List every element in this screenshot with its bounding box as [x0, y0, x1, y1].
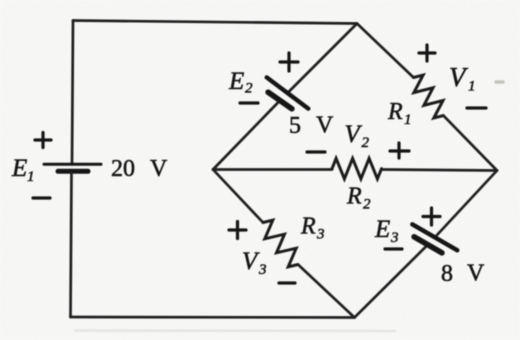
plus R3: [229, 222, 246, 239]
resistor R2: [332, 158, 382, 179]
svg-text:1: 1: [404, 112, 412, 128]
wire R2 to R: [382, 170, 498, 171]
wire left upper: [72, 21, 73, 164]
minus R2: [307, 150, 325, 153]
svg-text:E: E: [11, 155, 27, 182]
svg-text:R: R: [346, 184, 362, 210]
svg-text:1: 1: [468, 79, 476, 95]
svg-text:8: 8: [441, 261, 453, 287]
svg-text:3: 3: [390, 230, 399, 246]
svg-text:R: R: [300, 214, 316, 240]
svg-text:3: 3: [316, 227, 325, 243]
wire R3 to B: [298, 265, 355, 318]
wire left lower: [71, 172, 72, 317]
wire R1 to R: [443, 116, 497, 171]
wire top: [73, 21, 357, 24]
wire B to E3: [355, 247, 427, 318]
svg-text:5: 5: [289, 113, 301, 139]
wire T to E2: [289, 24, 357, 92]
resistor R1: [414, 75, 444, 118]
wire L to R3: [213, 170, 263, 223]
svg-text:2: 2: [363, 197, 371, 213]
svg-text:E: E: [228, 68, 244, 95]
svg-text:R: R: [387, 99, 403, 125]
svg-text:V: V: [150, 156, 168, 182]
battery E3: [412, 224, 457, 253]
scan streak bottom: [75, 329, 395, 332]
plus E2: [280, 53, 298, 71]
minus R1: [467, 106, 486, 109]
wire E3 to R: [437, 171, 497, 236]
scan smudge: [496, 80, 503, 84]
plus R2: [390, 143, 409, 158]
plus E1: [35, 133, 51, 148]
svg-text:V: V: [316, 113, 334, 139]
plus E3: [423, 208, 440, 225]
svg-text:2: 2: [362, 135, 370, 151]
minus E2: [240, 101, 258, 104]
svg-text:2: 2: [245, 81, 253, 97]
plus R1: [419, 45, 435, 61]
minus R3: [279, 281, 295, 284]
wire T to R1: [357, 24, 414, 78]
svg-text:E: E: [374, 216, 390, 243]
svg-text:V: V: [467, 261, 485, 287]
resistor R3: [263, 220, 298, 267]
battery E1: [44, 164, 101, 171]
wire bottom: [71, 316, 355, 319]
svg-text:1: 1: [27, 169, 35, 185]
minus E3: [385, 247, 402, 250]
wire L to R2: [213, 168, 332, 171]
battery E2: [267, 77, 309, 108]
minus E1: [33, 196, 50, 199]
wire E2 to L: [213, 103, 278, 170]
svg-text:20: 20: [111, 156, 135, 182]
svg-text:3: 3: [258, 262, 267, 278]
